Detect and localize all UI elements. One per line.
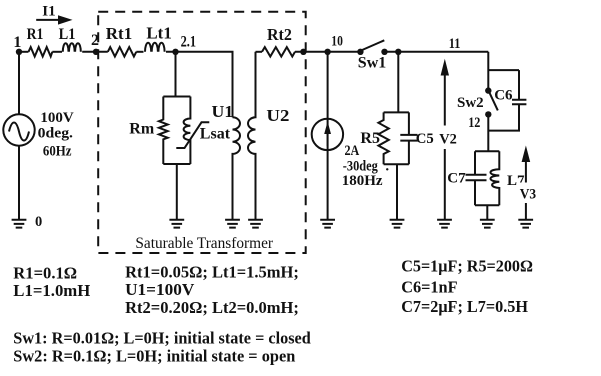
source V1 sine [9, 123, 29, 141]
Lsat saturation curve [176, 122, 209, 148]
arrowhead V3 [522, 146, 531, 163]
wire junction to R5C5 [397, 52, 399, 113]
C7L7 box bottom [475, 204, 499, 206]
svg-text:11: 11 [449, 36, 461, 52]
wire to node 2.1 and U1 top [166, 52, 233, 118]
arrowhead current source [324, 122, 331, 135]
wire node 12 drop [487, 114, 489, 151]
svg-text:I1: I1 [42, 3, 55, 19]
node 2.1 dot [172, 49, 178, 55]
winding U2 [248, 52, 255, 220]
svg-text:C6=1nF: C6=1nF [401, 277, 457, 296]
svg-text:R1=0.1Ω: R1=0.1Ω [13, 264, 77, 283]
svg-text:C5: C5 [416, 131, 434, 147]
wire U2 to Rt2 [256, 51, 263, 53]
wire [136, 51, 143, 53]
svg-text:Rt1: Rt1 [106, 24, 132, 43]
wire source to ground [18, 146, 20, 220]
wire C6 top branch [488, 70, 519, 99]
svg-text:Sw2: R=0.1Ω; L=0H; initial sta: Sw2: R=0.1Ω; L=0H; initial state = open [13, 346, 296, 365]
inductor L7 [490, 151, 499, 205]
voltmeter V2 arrow shaft [444, 74, 446, 220]
svg-text:U1=100V: U1=100V [125, 280, 195, 299]
wire C7L7 to ground [486, 205, 488, 219]
dashed box saturable transformer [98, 12, 306, 253]
wire node1 drop [18, 52, 20, 115]
ground Rm box [169, 220, 184, 228]
svg-text:Sw1: R=0.01Ω; L=0H; initial st: Sw1: R=0.01Ω; L=0H; initial state = clos… [13, 329, 311, 348]
inductor Lt1 [145, 43, 165, 52]
svg-text:L1: L1 [59, 26, 76, 43]
source V1 circle [3, 114, 34, 145]
wire C6 bottom branch [488, 105, 519, 131]
measure arrow I1 [36, 19, 58, 21]
switch Sw1 blade [361, 40, 384, 50]
switch Sw1 left dot [357, 49, 363, 55]
Rm/Lsat box top [163, 96, 190, 98]
svg-text:U2: U2 [266, 106, 289, 125]
C7L7 box top [475, 150, 499, 152]
wire [52, 51, 62, 53]
svg-text:C6: C6 [494, 88, 513, 104]
svg-text:60Hz: 60Hz [43, 144, 72, 160]
resistor Rt1 [108, 47, 136, 56]
svg-text:12: 12 [468, 115, 480, 131]
arrowhead V2 [441, 59, 449, 76]
capacitor C7 [466, 151, 487, 205]
svg-text:Rt2: Rt2 [267, 25, 292, 44]
label V3 (over wire) [518, 183, 539, 204]
svg-text:Rt2=0.20Ω; Lt2=0.0mH;: Rt2=0.20Ω; Lt2=0.0mH; [125, 298, 299, 317]
switch Sw2 top dot [485, 87, 491, 93]
svg-text:10: 10 [331, 34, 343, 50]
ground V2 [437, 220, 452, 228]
ground U1 [225, 220, 240, 228]
svg-text:2: 2 [91, 32, 99, 49]
Rm/Lsat box bottom [163, 163, 190, 165]
node Rt2 out dot [300, 49, 306, 55]
svg-text:Rt1=0.05Ω; Lt1=1.5mH;: Rt1=0.05Ω; Lt1=1.5mH; [125, 262, 299, 281]
node 1 dot [16, 49, 22, 55]
svg-text:180Hz: 180Hz [342, 173, 383, 189]
inductor L1 [63, 43, 81, 52]
wire main rail left [19, 51, 29, 53]
svg-text:.: . [385, 158, 389, 174]
resistor R5 [378, 112, 388, 164]
resistor Rm [159, 97, 168, 165]
svg-text:R5: R5 [360, 130, 380, 147]
svg-text:-30deg: -30deg [343, 158, 378, 174]
svg-text:2.1: 2.1 [181, 33, 197, 50]
current source arrow shaft (inside circle) [327, 128, 329, 146]
wire box bottom drop [176, 164, 178, 220]
voltmeter V3 arrow shaft [525, 161, 527, 220]
svg-text:R1: R1 [27, 26, 44, 43]
capacitor C5 [400, 112, 417, 164]
svg-text:0: 0 [35, 214, 42, 230]
ground current source [320, 220, 335, 228]
wire node10 drop through current source [327, 52, 329, 220]
R5C5 bottom bracket [384, 163, 409, 165]
svg-text:C5=1μF; R5=200Ω: C5=1μF; R5=200Ω [401, 257, 533, 276]
R5C5 top bracket [384, 111, 409, 113]
wire R5C5 to ground [396, 164, 398, 219]
wire Sw1 to node 11 corner [385, 51, 489, 53]
svg-text:1: 1 [13, 34, 21, 51]
wire node 11 drop [487, 52, 489, 91]
svg-text:C7=2μF; L7=0.5H: C7=2μF; L7=0.5H [401, 297, 528, 316]
svg-text:100V: 100V [40, 110, 74, 126]
svg-text:Sw1: Sw1 [358, 55, 386, 72]
current source circle [312, 119, 343, 150]
svg-text:Lsat: Lsat [200, 126, 231, 143]
node 2 dot [93, 49, 99, 55]
svg-text:U1: U1 [212, 102, 234, 121]
ground R5C5 [390, 220, 405, 228]
arrowhead I1 [58, 15, 73, 24]
resistor Rt2 [262, 47, 295, 56]
wire node2 segment [82, 51, 108, 53]
ground C7L7 [480, 220, 495, 228]
capacitor C6 [512, 100, 526, 104]
ground symbols [12, 220, 534, 228]
ground source [12, 220, 27, 228]
switch Sw2 bottom dot (node 12) [485, 111, 491, 117]
winding U1 [233, 117, 241, 219]
node 10 dot [324, 49, 330, 55]
svg-text:V3: V3 [520, 186, 536, 202]
switch Sw1 right dot [381, 49, 387, 55]
svg-text:V2: V2 [439, 131, 457, 147]
label V2 (over wire) [438, 126, 459, 150]
ground U2 [248, 220, 263, 228]
switch Sw2 blade [489, 92, 498, 110]
svg-text:Sw2: Sw2 [457, 95, 484, 111]
svg-text:0deg.: 0deg. [38, 125, 74, 141]
wire Rt2 to Sw1 [295, 51, 360, 53]
resistor R1 [29, 47, 53, 56]
wire node 2.1 drop [175, 52, 177, 97]
svg-text:2A: 2A [345, 143, 360, 159]
junction dot R5C5 [395, 49, 401, 55]
svg-text:Lt1: Lt1 [146, 24, 171, 43]
svg-text:C7: C7 [447, 171, 466, 187]
svg-text:Saturable Transformer: Saturable Transformer [135, 235, 273, 252]
svg-text:Rm: Rm [129, 121, 155, 138]
inductor Lsat [184, 97, 191, 165]
svg-text:L1=1.0mH: L1=1.0mH [13, 281, 90, 300]
ground V3 [518, 220, 533, 228]
